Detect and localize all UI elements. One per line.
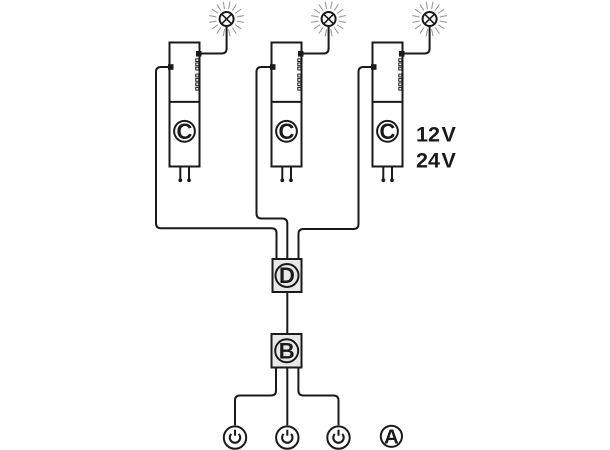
svg-text:D: D bbox=[279, 263, 295, 288]
svg-text:A: A bbox=[384, 425, 399, 448]
svg-text:B: B bbox=[279, 338, 295, 363]
svg-text:12V: 12V bbox=[416, 123, 457, 147]
svg-text:24V: 24V bbox=[416, 149, 457, 173]
